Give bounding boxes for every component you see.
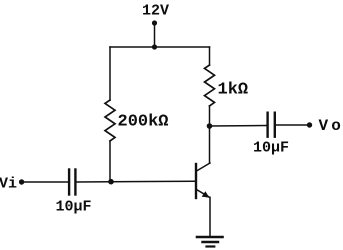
wire input cap to base bbox=[77, 180, 195, 183]
svg-text:200kΩ: 200kΩ bbox=[118, 113, 169, 132]
node Vi terminal bbox=[19, 179, 24, 184]
resistor R1 200kOhm bbox=[105, 100, 115, 141]
transistor Q1 emitter arrowhead bbox=[202, 191, 210, 198]
svg-text:10μF: 10μF bbox=[253, 139, 289, 156]
node base junction bbox=[108, 179, 114, 185]
svg-text:Vi: Vi bbox=[0, 176, 17, 193]
wire left vertical lower bbox=[109, 141, 111, 182]
transistor Q1 collector lead bbox=[197, 163, 211, 171]
svg-text:1kΩ: 1kΩ bbox=[218, 81, 249, 100]
wire 12V stub bbox=[154, 23, 156, 47]
node 12V terminal bbox=[152, 20, 157, 25]
capacitor C2 plates bbox=[268, 113, 275, 137]
wire emitter vertical bbox=[209, 197, 211, 236]
svg-text:10μF: 10μF bbox=[56, 199, 92, 216]
wire right vertical upper bbox=[209, 47, 211, 65]
ground bbox=[197, 237, 223, 247]
svg-text:Vo: Vo bbox=[319, 117, 343, 135]
transistor Q1 base bar bbox=[195, 164, 197, 198]
wire output cap to Vo bbox=[276, 124, 310, 126]
transistor Q1 emitter lead bbox=[197, 190, 210, 198]
wire left vertical upper bbox=[109, 47, 111, 100]
node collector junction bbox=[207, 123, 213, 129]
wire top rail bbox=[110, 46, 210, 48]
resistor R2 1kOhm bbox=[205, 65, 215, 106]
capacitor C1 plates bbox=[69, 170, 75, 195]
wire collector to output cap bbox=[210, 125, 267, 128]
wire collector vertical bbox=[209, 106, 211, 163]
svg-text:12V: 12V bbox=[142, 3, 169, 20]
node top rail junction bbox=[152, 44, 157, 49]
wire Vi to input cap bbox=[22, 181, 68, 183]
node Vo terminal bbox=[307, 122, 312, 127]
